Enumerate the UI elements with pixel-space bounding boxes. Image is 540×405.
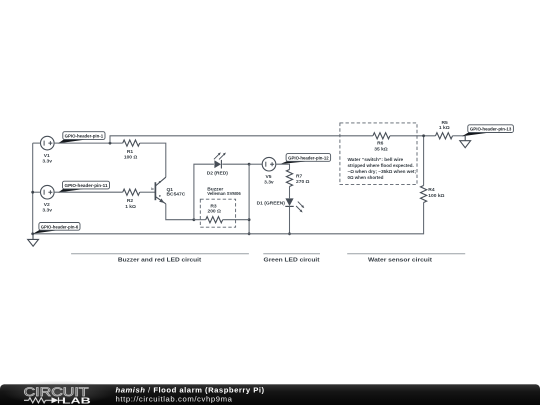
svg-text:Water sensor circuit: Water sensor circuit <box>368 258 432 264</box>
label: Water sensor circuit <box>347 254 465 264</box>
net flag GPIO-header-pin-13 <box>462 125 513 137</box>
voltage source V5 <box>262 157 276 185</box>
wire R4 up to top rail <box>423 136 425 186</box>
svg-text:stripped where flood expected.: stripped where flood expected. <box>348 163 415 169</box>
svg-text:270 Ω: 270 Ω <box>296 179 310 185</box>
resistor R5 <box>436 120 453 139</box>
svg-text:Water “switch”: bell wire: Water “switch”: bell wire <box>348 157 404 163</box>
wire node down to ground rail <box>248 164 250 234</box>
svg-text:~Ω when dry; ~35kΩ when wet;: ~Ω when dry; ~35kΩ when wet; <box>348 169 417 175</box>
svg-text:R6: R6 <box>377 141 384 147</box>
label: Green LED circuit <box>263 254 320 264</box>
svg-text:R5: R5 <box>441 120 448 126</box>
svg-text:V2: V2 <box>44 202 50 208</box>
svg-text:Buzzer and red LED circuit: Buzzer and red LED circuit <box>118 258 202 264</box>
net flag GPIO-header-pin-12 <box>280 154 330 164</box>
svg-text:R3: R3 <box>210 203 217 209</box>
wire buzzer row <box>194 219 206 221</box>
wire R2 to Q1 base <box>140 191 156 193</box>
wire left rail <box>32 143 34 234</box>
ground at GPIO-header-pin-13 node <box>460 136 471 148</box>
svg-text:GPIO-header-pin-12: GPIO-header-pin-12 <box>288 155 329 161</box>
svg-text:3.3v: 3.3v <box>264 179 274 185</box>
svg-text:LAB: LAB <box>62 396 91 405</box>
node buzzer row right <box>248 218 251 221</box>
svg-text:100 Ω: 100 Ω <box>124 155 138 161</box>
svg-text:GPIO-header-pin-1: GPIO-header-pin-1 <box>65 134 104 140</box>
resistor R6 <box>373 133 390 153</box>
svg-text:V1: V1 <box>44 153 50 159</box>
wire ground rail <box>33 203 424 234</box>
svg-text:Green LED circuit: Green LED circuit <box>264 258 320 264</box>
svg-text:BC547C: BC547C <box>167 192 186 198</box>
svg-text:100 kΩ: 100 kΩ <box>428 193 444 199</box>
node R4 top rail <box>422 134 425 137</box>
voltage source V1 <box>33 136 60 164</box>
wire node to V5 <box>249 163 262 165</box>
LED D2 (RED) <box>207 152 229 176</box>
svg-text:200 Ω: 200 Ω <box>207 209 221 215</box>
net flag GPIO-header-pin-11 <box>58 181 109 192</box>
node buzzer row left <box>193 218 196 221</box>
wire D1 cathode to ground rail <box>289 206 291 233</box>
svg-text:http://circuitlab.com/cvhp9ma: http://circuitlab.com/cvhp9ma <box>116 394 233 403</box>
svg-text:GPIO-header-pin-6: GPIO-header-pin-6 <box>41 224 79 230</box>
resistor R7 <box>286 170 309 187</box>
water sensor model box <box>340 123 417 185</box>
svg-text:GPIO-header-pin-11: GPIO-header-pin-11 <box>65 183 108 189</box>
svg-text:hamish / Flood alarm (Raspberr: hamish / Flood alarm (Raspberry Pi) <box>116 385 265 394</box>
wire V5 to R7 <box>276 164 290 169</box>
wire top rail after R5 <box>453 135 465 137</box>
svg-text:3.3v: 3.3v <box>42 207 52 213</box>
resistor R4 <box>421 186 445 203</box>
CircuitLab logo <box>24 385 91 405</box>
svg-text:R2: R2 <box>127 198 134 204</box>
svg-text:V5: V5 <box>266 174 272 180</box>
svg-text:1 kΩ: 1 kΩ <box>125 204 136 210</box>
resistor R3 <box>206 203 223 222</box>
svg-text:3.3v: 3.3v <box>42 158 52 164</box>
wire Q1 emitter down to buzzer row <box>166 204 194 220</box>
svg-text:R7: R7 <box>296 174 303 180</box>
transistor Q1 BC547C <box>151 177 185 204</box>
svg-text:35 kΩ: 35 kΩ <box>374 146 388 152</box>
node left rail at V2 <box>31 191 34 194</box>
svg-text:R1: R1 <box>127 149 134 155</box>
svg-text:1 kΩ: 1 kΩ <box>439 125 450 131</box>
LED D1 (GREEN) <box>257 198 305 212</box>
wire D2 cathode to node <box>222 163 249 165</box>
net flag GPIO-header-pin-1 <box>58 132 105 144</box>
svg-text:GPIO-header-pin-13: GPIO-header-pin-13 <box>470 127 512 133</box>
voltage source V2 <box>33 185 60 213</box>
svg-text:Velleman SVM06: Velleman SVM06 <box>207 191 241 197</box>
resistor R1 <box>123 140 140 161</box>
wire up to D2 anode <box>194 164 214 220</box>
svg-text:D1 (GREEN): D1 (GREEN) <box>257 201 286 207</box>
wire branch up to top rail <box>110 136 373 143</box>
wire R7 to D1 <box>289 187 291 199</box>
node ground rail <box>248 232 251 235</box>
net flag GPIO-header-pin-6 <box>33 223 80 234</box>
wire V1 row <box>60 142 123 144</box>
node LED row / V5 <box>248 163 251 166</box>
wire R1 to Q1 collector corner <box>140 143 166 177</box>
buzzer Velleman SVM06 (model box) <box>200 186 241 227</box>
svg-text:0Ω when shorted: 0Ω when shorted <box>348 175 384 181</box>
svg-text:R4: R4 <box>428 187 435 193</box>
label: Buzzer and red LED circuit <box>71 254 249 264</box>
wire V2 row <box>60 191 123 193</box>
ground symbol bottom left <box>28 234 39 246</box>
resistor R2 <box>123 189 140 210</box>
node junction V1/R1/top-rail <box>109 142 112 145</box>
node ground rail left <box>31 232 34 235</box>
svg-text:D2 (RED): D2 (RED) <box>207 171 229 177</box>
wire top rail between R6 and R5 <box>390 135 436 137</box>
node D1 on rail <box>288 232 291 235</box>
